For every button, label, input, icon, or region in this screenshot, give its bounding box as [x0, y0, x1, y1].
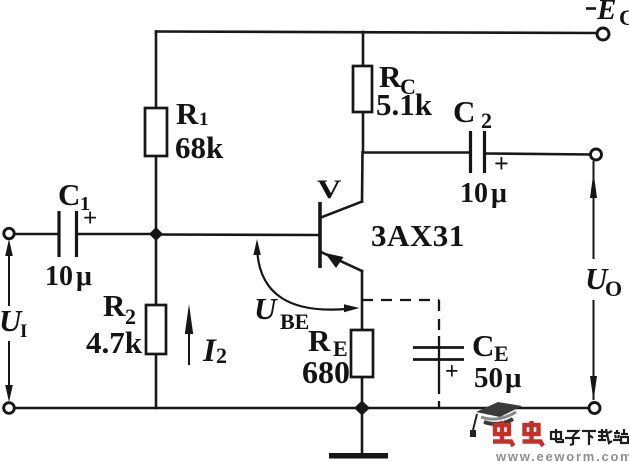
svg-text:I: I — [202, 333, 217, 369]
svg-text:10μ: 10μ — [460, 178, 507, 209]
svg-text:U: U — [254, 291, 278, 326]
svg-text:2: 2 — [216, 343, 227, 368]
svg-text:+: + — [445, 359, 459, 385]
svg-text:1: 1 — [199, 109, 209, 130]
svg-text:C: C — [619, 5, 629, 30]
svg-text:C: C — [472, 328, 494, 363]
svg-text:+: + — [494, 149, 509, 178]
svg-text:50μ: 50μ — [474, 362, 522, 394]
svg-text:BE: BE — [280, 309, 309, 334]
svg-text:10μ: 10μ — [45, 261, 92, 292]
svg-text:C: C — [58, 177, 80, 212]
svg-text:4.7k: 4.7k — [86, 325, 143, 360]
svg-text:V: V — [317, 175, 342, 204]
svg-text:I: I — [20, 321, 27, 342]
svg-text:2: 2 — [481, 108, 492, 133]
svg-text:68k: 68k — [175, 130, 224, 165]
svg-text:www.eeworm.com: www.eeworm.com — [495, 449, 629, 462]
svg-text:680: 680 — [302, 354, 350, 390]
svg-text:+: + — [83, 205, 97, 232]
svg-text:O: O — [605, 276, 622, 301]
svg-text:R: R — [308, 323, 331, 358]
svg-text:R: R — [103, 288, 126, 323]
svg-text:R: R — [176, 96, 199, 131]
svg-text:5.1k: 5.1k — [376, 87, 433, 122]
svg-text:C: C — [453, 94, 475, 129]
svg-text:E: E — [596, 0, 616, 26]
svg-text:3AX31: 3AX31 — [371, 218, 465, 253]
